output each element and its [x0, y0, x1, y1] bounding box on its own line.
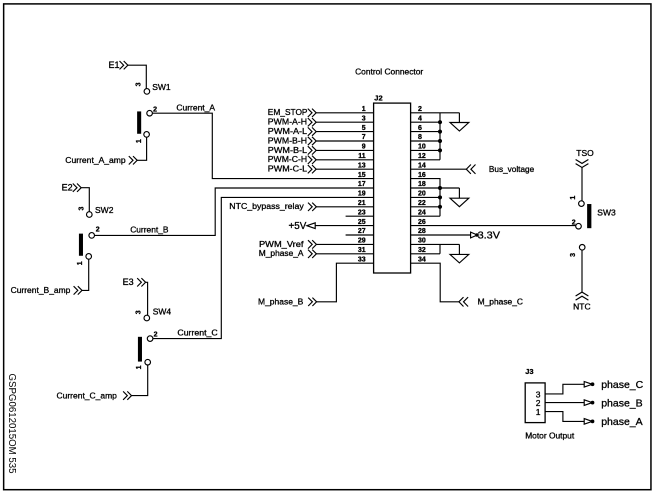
svg-text:Current_A_amp: Current_A_amp: [65, 155, 126, 165]
svg-text:M_phase_B: M_phase_B: [258, 297, 304, 307]
svg-text:GSPG0612015OM 535: GSPG0612015OM 535: [6, 374, 17, 474]
svg-text:28: 28: [418, 228, 426, 235]
svg-text:2: 2: [572, 219, 576, 226]
svg-text:4: 4: [418, 115, 422, 122]
svg-text:SW3: SW3: [597, 207, 616, 217]
svg-text:8: 8: [418, 134, 422, 141]
svg-text:J3: J3: [525, 367, 533, 376]
svg-text:19: 19: [358, 191, 366, 198]
svg-text:24: 24: [418, 209, 426, 216]
svg-text:phase_A: phase_A: [601, 416, 642, 428]
svg-text:TSO: TSO: [576, 148, 594, 158]
svg-text:23: 23: [358, 209, 366, 216]
svg-text:PWM-C-L: PWM-C-L: [268, 164, 308, 174]
svg-text:SW2: SW2: [95, 205, 114, 215]
svg-text:E3: E3: [123, 277, 134, 287]
svg-text:12: 12: [418, 153, 426, 160]
svg-text:17: 17: [358, 181, 366, 188]
svg-text:Current_A: Current_A: [176, 103, 215, 113]
svg-text:5: 5: [362, 125, 366, 132]
svg-text:SW4: SW4: [153, 306, 172, 316]
svg-text:31: 31: [358, 247, 366, 254]
svg-text:10: 10: [418, 144, 426, 151]
svg-text:phase_C: phase_C: [601, 379, 643, 391]
svg-text:3: 3: [362, 115, 366, 122]
svg-text:Current_C: Current_C: [177, 328, 217, 338]
svg-text:+5V: +5V: [289, 221, 307, 232]
svg-text:Bus_voltage: Bus_voltage: [489, 164, 535, 174]
svg-text:phase_B: phase_B: [601, 397, 642, 409]
svg-text:E2: E2: [62, 182, 73, 192]
svg-text:27: 27: [358, 228, 366, 235]
svg-text:1: 1: [77, 261, 84, 265]
svg-text:Current_B_amp: Current_B_amp: [11, 285, 71, 295]
svg-text:30: 30: [418, 238, 426, 245]
svg-text:M_phase_A: M_phase_A: [259, 248, 304, 258]
svg-text:9: 9: [362, 144, 366, 151]
svg-text:Motor Output: Motor Output: [525, 430, 575, 440]
svg-text:15: 15: [358, 172, 366, 179]
svg-text:32: 32: [418, 247, 426, 254]
svg-text:21: 21: [358, 200, 366, 207]
svg-text:2: 2: [96, 227, 100, 234]
svg-text:13: 13: [358, 162, 366, 169]
svg-text:6: 6: [418, 125, 422, 132]
svg-text:J2: J2: [374, 94, 382, 103]
svg-text:11: 11: [358, 153, 366, 160]
svg-text:Current_C_amp: Current_C_amp: [57, 390, 118, 400]
svg-text:7: 7: [362, 134, 366, 141]
svg-text:16: 16: [418, 172, 426, 179]
svg-text:1: 1: [362, 106, 366, 113]
svg-text:3.3V: 3.3V: [478, 230, 501, 241]
svg-text:NTC_bypass_relay: NTC_bypass_relay: [229, 201, 304, 211]
svg-text:3: 3: [135, 82, 142, 86]
svg-text:34: 34: [418, 256, 426, 263]
svg-text:26: 26: [418, 219, 426, 226]
svg-text:M_phase_C: M_phase_C: [478, 297, 523, 307]
svg-text:2: 2: [153, 107, 157, 114]
svg-text:33: 33: [358, 256, 366, 263]
svg-text:1: 1: [536, 407, 541, 417]
svg-text:1: 1: [136, 139, 143, 143]
svg-text:2: 2: [154, 331, 158, 338]
svg-text:E1: E1: [108, 60, 119, 70]
svg-text:1: 1: [570, 196, 577, 200]
svg-text:Current_B: Current_B: [130, 225, 169, 235]
svg-text:3: 3: [136, 310, 143, 314]
svg-text:29: 29: [358, 238, 366, 245]
svg-text:Control Connector: Control Connector: [355, 66, 423, 76]
svg-text:25: 25: [358, 219, 366, 226]
svg-text:SW1: SW1: [152, 82, 171, 92]
svg-text:14: 14: [418, 162, 426, 169]
svg-text:20: 20: [418, 191, 426, 198]
svg-text:2: 2: [418, 106, 422, 113]
svg-text:NTC: NTC: [573, 301, 590, 311]
svg-text:3: 3: [570, 253, 577, 257]
svg-text:3: 3: [79, 206, 86, 210]
svg-text:1: 1: [136, 365, 143, 369]
svg-text:18: 18: [418, 181, 426, 188]
svg-text:22: 22: [418, 200, 426, 207]
